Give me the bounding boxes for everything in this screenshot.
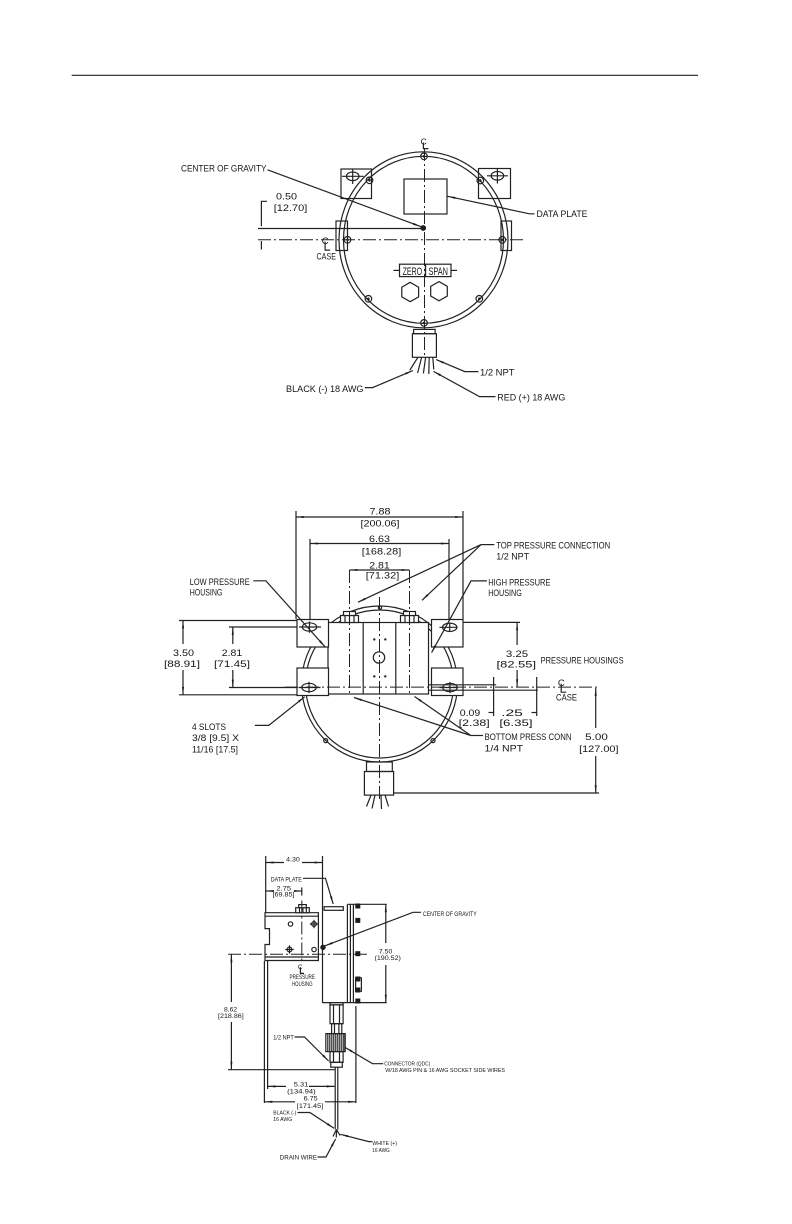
mounting clip bolts	[355, 904, 360, 909]
cover screw top	[421, 153, 428, 160]
wire strand right	[337, 1129, 341, 1135]
wire strand middle	[335, 1129, 337, 1137]
svg-text:4.30: 4.30	[286, 856, 300, 863]
svg-text:CASE: CASE	[556, 692, 577, 703]
svg-text:TOP PRESSURE CONNECTION: TOP PRESSURE CONNECTION	[496, 540, 610, 551]
svg-text:1/2 NPT: 1/2 NPT	[480, 368, 515, 379]
housing centerline	[301, 901, 303, 963]
svg-text:[69.85]: [69.85]	[273, 892, 295, 899]
svg-text:[200.06]: [200.06]	[361, 519, 400, 530]
svg-text:[218.86]: [218.86]	[218, 1013, 244, 1020]
dim 8.62 ext bottom	[228, 1069, 335, 1071]
cover screw right	[499, 237, 506, 244]
pressure housing block	[265, 913, 318, 961]
centerline symbol case	[322, 236, 330, 250]
wire 2	[372, 795, 375, 808]
data plate	[404, 179, 447, 214]
case outer circle	[339, 152, 508, 328]
dim 5.31	[268, 1082, 335, 1096]
svg-text:[71.32]: [71.32]	[366, 571, 400, 582]
zero plate	[400, 264, 426, 276]
side tab left	[336, 221, 348, 251]
leader low pressure housing	[253, 581, 325, 647]
dim 0.09 ext	[493, 677, 495, 716]
zero adjustment hex	[402, 282, 419, 301]
leader 1/2 npt	[295, 1037, 329, 1061]
center of gravity marker	[420, 225, 426, 231]
svg-text:HOUSING: HOUSING	[488, 588, 522, 599]
wire 1	[410, 358, 418, 371]
leader top pressure connection 2	[422, 545, 481, 601]
svg-text:[82.55]: [82.55]	[497, 660, 537, 671]
conduit nipple neck	[330, 1003, 343, 1005]
svg-text:W/18 AWG PIN & 16 AWG SOCKET S: W/18 AWG PIN & 16 AWG SOCKET SIDE WIRES	[385, 1068, 505, 1074]
cover screw bottom	[421, 320, 428, 327]
svg-text:[2.38]: [2.38]	[459, 718, 490, 729]
mounting plate lower-left	[297, 668, 329, 696]
body section line left	[362, 623, 364, 695]
mounting tab top-right	[479, 168, 511, 198]
svg-text:2.81: 2.81	[222, 648, 243, 659]
leader 1/2 NPT	[436, 360, 478, 372]
dim 0.09 hook	[489, 712, 494, 714]
page top rule	[72, 74, 698, 76]
wire 3	[423, 358, 425, 374]
housing inner line bottom	[265, 956, 318, 958]
svg-text:1/2 NPT: 1/2 NPT	[273, 1034, 294, 1041]
dim 8.62	[218, 954, 244, 1069]
zero span ticks	[394, 269, 400, 271]
svg-text:7.88: 7.88	[370, 507, 391, 518]
mounting plate upper-left	[297, 620, 329, 648]
svg-text:6.75: 6.75	[304, 1096, 319, 1103]
dim 0.50	[261, 191, 307, 249]
svg-text:RED (+) 18 AWG: RED (+) 18 AWG	[497, 393, 565, 404]
transmitter body	[328, 623, 429, 695]
svg-text:0.50: 0.50	[276, 191, 297, 202]
svg-text:[127.00]: [127.00]	[579, 744, 618, 755]
dim 2.81 ext bottom	[229, 687, 297, 689]
svg-text:[6.35]: [6.35]	[499, 718, 532, 729]
connector lower body	[330, 1052, 343, 1063]
cover screw upper-left	[366, 177, 373, 184]
conduit connection body	[412, 334, 436, 358]
connection centerline left	[349, 570, 351, 694]
svg-text:BLACK (-) 18 AWG: BLACK (-) 18 AWG	[286, 384, 364, 395]
centerline symbol case	[558, 678, 566, 692]
leader center of gravity	[325, 912, 421, 946]
dim .25 ext	[536, 677, 538, 716]
dim 6.75 ext right	[355, 1006, 357, 1103]
mounting plate upper-right	[432, 620, 464, 648]
housing edge line B	[429, 689, 538, 691]
svg-text:WHITE (+): WHITE (+)	[372, 1141, 397, 1147]
svg-text:(190.52): (190.52)	[375, 955, 401, 962]
cover screw lower-left	[365, 296, 372, 303]
svg-text:BOTTOM PRESS CONN: BOTTOM PRESS CONN	[485, 732, 572, 743]
case horizontal centerline	[285, 686, 599, 688]
svg-text:HOUSING: HOUSING	[292, 981, 313, 988]
wire strand left	[333, 1129, 337, 1136]
housing bolt 3	[285, 945, 293, 953]
svg-text:DATA PLATE: DATA PLATE	[271, 876, 302, 883]
centerline symbol housing	[298, 964, 304, 974]
svg-text:[168.28]: [168.28]	[362, 547, 402, 558]
svg-text:CASE: CASE	[317, 252, 337, 263]
wire 2	[418, 358, 422, 374]
dim 3.50 ext bottom	[179, 694, 297, 696]
case inner circle	[306, 610, 454, 758]
svg-text:DATA PLATE: DATA PLATE	[537, 209, 588, 220]
leader data plate	[303, 878, 333, 904]
wire 4	[385, 795, 389, 806]
dim 5.31 ext a	[263, 961, 265, 1103]
housing top nut	[296, 905, 310, 913]
dim 7.88 line	[296, 516, 463, 518]
leader data plate	[448, 196, 535, 214]
dim 2.81 line	[350, 569, 410, 571]
svg-text:[88.91]: [88.91]	[164, 659, 200, 670]
dim 6.63 ext right	[448, 539, 450, 619]
svg-text:1/2 NPT: 1/2 NPT	[496, 552, 529, 563]
case outer circle	[302, 606, 458, 762]
center of gravity marker	[320, 945, 325, 950]
dim 2.75	[266, 885, 302, 898]
housing bolt 1	[288, 922, 292, 926]
dim 5.31 ext b	[267, 961, 269, 1089]
svg-text:ZERO: ZERO	[403, 266, 423, 278]
clip plate	[356, 978, 362, 992]
case rear lines	[346, 904, 348, 1002]
housing bolt 2	[310, 920, 318, 928]
dim 3.25	[497, 622, 537, 687]
vertical centerline	[424, 148, 426, 358]
dim 7.88 ext left	[295, 511, 297, 619]
svg-text:CONNECTOR (QDC): CONNECTOR (QDC)	[384, 1062, 430, 1068]
body center port	[373, 652, 384, 663]
cable left line	[334, 1067, 336, 1129]
data plate side	[324, 907, 343, 911]
cover screw lower-right	[476, 296, 483, 303]
leader 4 slots	[255, 697, 305, 726]
cable right line	[337, 1067, 339, 1129]
svg-text:1/4 NPT: 1/4 NPT	[485, 743, 524, 754]
svg-text:3.50: 3.50	[173, 648, 194, 659]
svg-text:.25: .25	[501, 708, 523, 719]
dim 5.00	[579, 688, 618, 793]
svg-text:0.09: 0.09	[460, 708, 481, 719]
wire 1	[367, 795, 372, 806]
housing bolt 4	[312, 947, 316, 951]
dim 6.75	[264, 1096, 356, 1110]
case top edge	[347, 903, 386, 905]
center of gravity offset line	[258, 228, 421, 230]
leader drain wire	[318, 1139, 336, 1157]
svg-text:SPAN: SPAN	[428, 266, 448, 278]
connector socket band	[331, 1062, 343, 1067]
mounting tab top-left	[341, 169, 372, 199]
dim 3.25 ext	[463, 621, 520, 623]
leader top pressure connection 1	[358, 545, 481, 603]
housing inner line top	[265, 915, 318, 917]
svg-text:CENTER OF GRAVITY: CENTER OF GRAVITY	[181, 164, 267, 175]
svg-text:11/16 [17.5]: 11/16 [17.5]	[192, 744, 238, 755]
dim 7.88 ext right	[462, 511, 464, 619]
leader center of gravity	[268, 170, 421, 227]
top connection nut left	[341, 612, 359, 623]
dim .25 hook	[532, 712, 537, 714]
connector knurled body	[326, 1034, 345, 1052]
case front face	[322, 856, 324, 1003]
dim 2.81 ext top	[229, 626, 297, 628]
conduit nipple	[330, 1005, 343, 1024]
leader bottom press conn 2	[415, 697, 471, 736]
svg-text:CENTER OF GRAVITY: CENTER OF GRAVITY	[423, 911, 477, 918]
svg-text:(134.94): (134.94)	[287, 1089, 316, 1096]
body bolt holes	[373, 638, 375, 640]
svg-text:DRAIN WIRE: DRAIN WIRE	[280, 1155, 317, 1162]
dim 7.50	[375, 904, 401, 1002]
span adjustment hex	[431, 282, 448, 301]
dim 4.30 ext left	[265, 856, 267, 913]
wire 4	[428, 358, 430, 375]
leader white wire	[340, 1134, 372, 1141]
conduit neck	[367, 762, 393, 772]
leader red wire	[434, 371, 496, 396]
svg-text:LOW PRESSURE: LOW PRESSURE	[190, 577, 250, 588]
slot lower-left	[299, 682, 321, 693]
svg-text:5.00: 5.00	[585, 732, 608, 743]
leader bottom press conn 1	[354, 698, 471, 736]
dim 3.50 ext top	[179, 620, 297, 622]
leader black wire	[365, 371, 413, 388]
span plate	[426, 264, 452, 276]
svg-text:16 AWG: 16 AWG	[273, 1117, 292, 1123]
wire 3	[380, 795, 383, 809]
connector coupling	[332, 1024, 342, 1034]
connection centerline right	[409, 570, 411, 694]
centerline symbol top	[421, 136, 429, 148]
leader black wire	[298, 1113, 335, 1129]
mounting plate lower-right	[432, 668, 464, 696]
svg-text:[12.70]: [12.70]	[274, 203, 308, 214]
svg-text:16 AWG: 16 AWG	[372, 1148, 390, 1154]
screw bottom-left arc	[324, 739, 328, 743]
svg-text:4 SLOTS: 4 SLOTS	[192, 722, 226, 733]
svg-text:BLACK (-): BLACK (-)	[273, 1111, 296, 1117]
svg-text:[171.45]: [171.45]	[297, 1103, 324, 1110]
dim 6.63 line	[310, 543, 449, 545]
svg-text:3/8 [9.5] X: 3/8 [9.5] X	[192, 733, 240, 744]
side tab right	[501, 221, 512, 251]
svg-text:PRESSURE HOUSINGS: PRESSURE HOUSINGS	[541, 656, 624, 667]
cover screw left	[344, 237, 351, 244]
wire 5	[433, 358, 434, 370]
conduit body	[364, 772, 393, 796]
conduit connection neck	[414, 329, 436, 333]
dim 5.00 ext	[394, 792, 599, 794]
dim 3.50	[164, 621, 200, 695]
screw bottom-right arc	[431, 739, 435, 743]
top connection nut right	[401, 612, 419, 623]
screw top arc	[378, 606, 381, 609]
dim 4.30	[266, 856, 323, 863]
svg-text:HOUSING: HOUSING	[190, 587, 223, 598]
slot upper-right	[439, 623, 457, 632]
dim 6.63 ext left	[309, 539, 311, 619]
case centerline side	[228, 953, 367, 955]
svg-text:6.63: 6.63	[369, 534, 390, 545]
slot lower-right	[439, 682, 458, 693]
svg-text:HIGH PRESSURE: HIGH PRESSURE	[488, 578, 550, 589]
slot upper-left	[299, 622, 321, 633]
case horizontal centerline	[258, 239, 524, 241]
body section line right	[395, 623, 397, 695]
vertical centerline	[379, 597, 381, 800]
case inner circle	[344, 156, 504, 323]
case bottom edge	[323, 1002, 387, 1004]
dim 2.81 left	[214, 627, 250, 688]
leader connector	[345, 1048, 383, 1064]
svg-text:[71.45]: [71.45]	[214, 659, 250, 670]
leader high pressure housing	[432, 581, 487, 653]
cover screw upper-right	[477, 177, 484, 184]
housing edge line A	[429, 684, 497, 686]
